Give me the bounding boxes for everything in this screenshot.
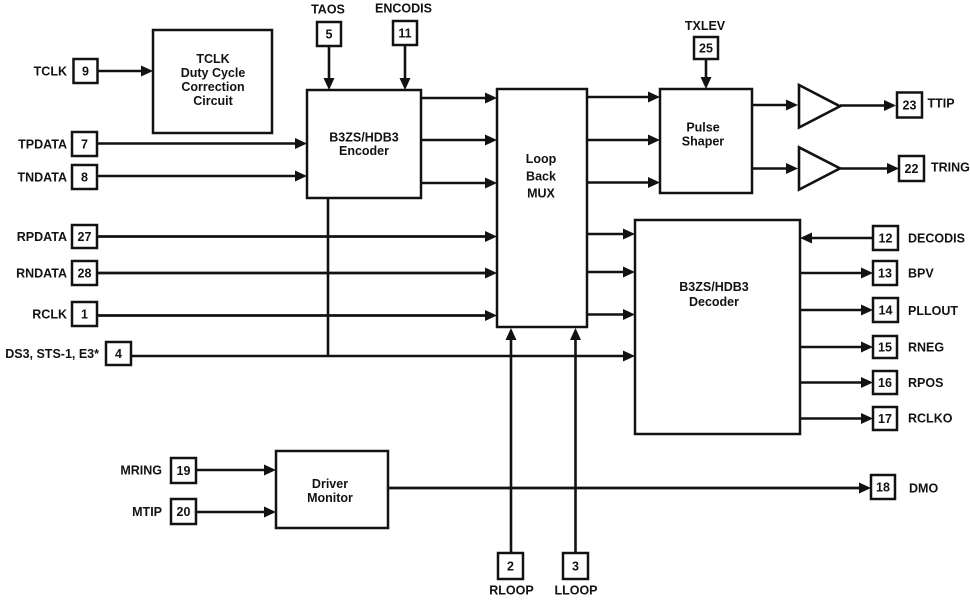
svg-text:B3ZS/HDB3: B3ZS/HDB3 — [679, 280, 749, 294]
wire MUX to decoder row E — [587, 267, 635, 278]
pin 16 RPOS — [873, 371, 943, 394]
wire encoder to MUX row B — [421, 135, 497, 146]
pin 17 RCLKO — [873, 407, 953, 430]
pin 5 TAOS — [311, 3, 345, 47]
svg-text:Pulse: Pulse — [686, 121, 719, 135]
pin 14 PLLOUT — [873, 298, 958, 322]
svg-text:TCLK: TCLK — [34, 65, 67, 79]
svg-text:TAOS: TAOS — [311, 3, 345, 17]
svg-text:5: 5 — [326, 28, 333, 42]
pin 20 MTIP — [132, 499, 196, 524]
wire MRING to driver monitor — [196, 465, 276, 476]
svg-text:25: 25 — [699, 42, 713, 56]
svg-text:Circuit: Circuit — [193, 94, 233, 108]
wire decoder to pin 13 BPV — [800, 268, 873, 279]
svg-text:RLOOP: RLOOP — [489, 584, 533, 598]
svg-text:Correction: Correction — [181, 80, 244, 94]
svg-text:4: 4 — [115, 347, 122, 361]
svg-text:B3ZS/HDB3: B3ZS/HDB3 — [329, 131, 399, 145]
pin 1 RCLK — [32, 302, 97, 326]
pin 15 RNEG — [873, 336, 944, 358]
wire encoder to MUX row A — [421, 93, 497, 104]
pin 25 TXLEV — [685, 19, 726, 59]
svg-text:27: 27 — [78, 230, 92, 244]
svg-text:MRING: MRING — [120, 464, 162, 478]
wire TAOS to encoder top — [324, 46, 335, 90]
wire decoder to pin 15 RNEG — [800, 342, 873, 353]
pin 27 RPDATA — [17, 225, 97, 248]
svg-text:19: 19 — [177, 464, 191, 478]
wire MUX to pulse shaper row A — [587, 92, 660, 103]
wire MTIP to driver monitor — [196, 507, 276, 518]
svg-text:17: 17 — [878, 412, 892, 426]
wire pulse shaper to amplifier A2 — [752, 163, 798, 174]
svg-text:RNEG: RNEG — [908, 341, 944, 355]
wire RPDATA to loopback MUX — [97, 231, 497, 242]
svg-text:Decoder: Decoder — [689, 295, 739, 309]
pin 13 BPV — [873, 261, 934, 285]
svg-text:9: 9 — [82, 65, 89, 79]
wire amplifier A2 to pin 22 TRING — [840, 163, 899, 174]
wire decoder to pin 14 PLLOUT — [800, 305, 873, 316]
wire RNDATA to loopback MUX — [97, 268, 497, 279]
wire amplifier A1 to pin 23 TTIP — [840, 100, 896, 111]
wire TNDATA to encoder — [97, 171, 307, 182]
wire pin 12 DECODIS into decoder — [800, 233, 873, 244]
block Driver Monitor — [276, 451, 388, 528]
svg-text:Shaper: Shaper — [682, 135, 725, 149]
wire RCLK to loopback MUX — [97, 310, 497, 321]
svg-text:12: 12 — [879, 232, 893, 246]
svg-text:TTIP: TTIP — [928, 97, 955, 111]
block B3ZS/HDB3 Decoder — [635, 220, 800, 434]
wire encoder bottom to DS3 mode line — [327, 198, 330, 356]
svg-text:ENCODIS: ENCODIS — [375, 2, 432, 16]
wire RLOOP to MUX bottom — [506, 328, 517, 553]
svg-text:BPV: BPV — [908, 267, 934, 281]
svg-text:MTIP: MTIP — [132, 505, 162, 519]
svg-text:RPDATA: RPDATA — [17, 230, 67, 244]
wire driver monitor to pin 18 DMO — [388, 483, 871, 494]
svg-text:22: 22 — [905, 162, 919, 176]
pin 12 DECODIS — [873, 226, 965, 250]
svg-text:TRING: TRING — [931, 161, 970, 175]
wire decoder to pin 17 RCLKO — [800, 413, 873, 424]
svg-text:20: 20 — [177, 505, 191, 519]
pin 2 RLOOP — [489, 553, 533, 598]
svg-text:13: 13 — [878, 267, 892, 281]
pin 11 ENCODIS — [375, 2, 432, 46]
svg-text:1: 1 — [81, 308, 88, 322]
wire decoder to pin 16 RPOS — [800, 377, 873, 388]
block Loop Back MUX — [497, 89, 587, 327]
wire MUX to pulse shaper row B — [587, 135, 660, 146]
svg-text:PLLOUT: PLLOUT — [908, 304, 958, 318]
wire DS3 mode line to decoder — [131, 351, 635, 362]
svg-text:DMO: DMO — [909, 482, 938, 496]
wire TPDATA to encoder — [97, 138, 307, 149]
svg-text:TXLEV: TXLEV — [685, 19, 726, 33]
wire LLOOP to MUX bottom — [570, 328, 581, 553]
buffer amplifier A2 (TRING) — [799, 147, 840, 189]
svg-text:Back: Back — [526, 170, 556, 184]
svg-text:RPOS: RPOS — [908, 376, 943, 390]
svg-text:DECODIS: DECODIS — [908, 232, 965, 246]
svg-text:Monitor: Monitor — [307, 491, 353, 505]
pin 4 DS3/STS-1/E3 mode select — [5, 342, 131, 365]
svg-text:TPDATA: TPDATA — [18, 138, 67, 152]
wire pulse shaper to amplifier A1 — [752, 100, 798, 111]
svg-text:RCLKO: RCLKO — [908, 412, 953, 426]
pin 3 LLOOP — [554, 553, 597, 598]
svg-text:23: 23 — [903, 99, 917, 113]
pin 7 TPDATA — [18, 132, 97, 156]
svg-text:14: 14 — [879, 304, 893, 318]
wire encoder to MUX row C — [421, 178, 497, 189]
wire TCLK pin9 to TCLK circuit — [98, 66, 154, 77]
svg-text:RNDATA: RNDATA — [16, 267, 67, 281]
svg-text:TCLK: TCLK — [196, 52, 229, 66]
pin 28 RNDATA — [16, 261, 97, 285]
svg-text:2: 2 — [507, 560, 514, 574]
wire MUX to pulse shaper row C — [587, 177, 660, 188]
wire MUX to decoder row F — [587, 309, 635, 320]
pin 18 DMO — [871, 475, 938, 499]
svg-text:7: 7 — [81, 138, 88, 152]
svg-text:MUX: MUX — [527, 187, 555, 201]
svg-text:Loop: Loop — [526, 152, 557, 166]
svg-text:18: 18 — [876, 481, 890, 495]
block TCLK Duty Cycle Correction Circuit — [153, 30, 272, 133]
svg-text:Encoder: Encoder — [339, 144, 389, 158]
block Pulse Shaper — [660, 89, 752, 193]
wire MUX to decoder row D — [587, 229, 635, 240]
wire TXLEV to pulse shaper top — [701, 59, 712, 89]
svg-text:11: 11 — [398, 27, 411, 41]
pin 8 TNDATA — [17, 165, 97, 189]
svg-text:16: 16 — [878, 376, 892, 390]
svg-text:RCLK: RCLK — [32, 308, 67, 322]
pin 9 TCLK — [34, 59, 98, 83]
svg-text:DS3, STS-1, E3*: DS3, STS-1, E3* — [5, 347, 99, 361]
svg-text:28: 28 — [78, 267, 92, 281]
pin 22 TRING — [899, 156, 970, 181]
svg-text:8: 8 — [81, 171, 88, 185]
svg-text:3: 3 — [572, 560, 579, 574]
block B3ZS/HDB3 Encoder U2 — [307, 90, 421, 198]
buffer amplifier A1 (TTIP) — [799, 85, 840, 128]
pin 23 TTIP — [897, 93, 955, 118]
svg-text:LLOOP: LLOOP — [554, 584, 597, 598]
wire ENCODIS to encoder top — [400, 45, 411, 90]
svg-text:15: 15 — [878, 341, 892, 355]
svg-text:Duty Cycle: Duty Cycle — [181, 66, 246, 80]
pin 19 MRING — [120, 458, 196, 483]
svg-text:TNDATA: TNDATA — [17, 171, 67, 185]
svg-text:Driver: Driver — [312, 477, 348, 491]
